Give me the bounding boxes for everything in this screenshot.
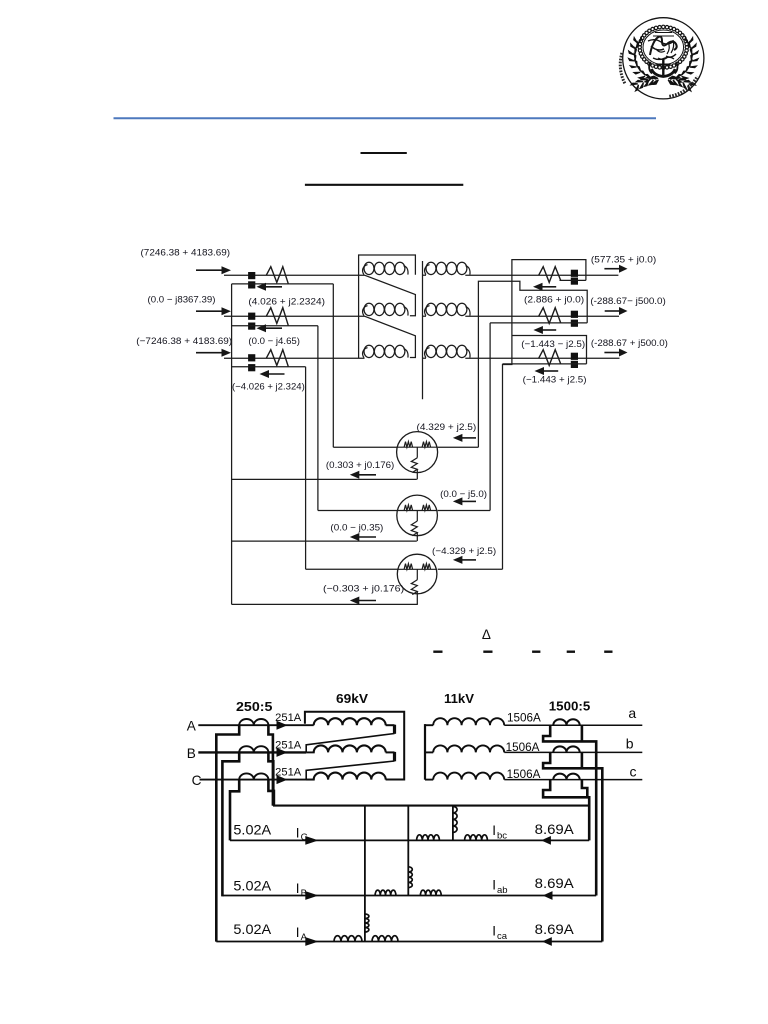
svg-text:ca: ca [497,931,508,942]
svg-text:(-288.67 + j500.0): (-288.67 + j500.0) [591,338,668,349]
69kV winding B terminal [386,751,395,753]
load 3 (motor/impedance) [397,554,437,594]
wire: phase C return stub [232,366,306,368]
svg-text:(−7246.38 + 4183.69): (−7246.38 + 4183.69) [136,336,232,347]
wire: 69kV line A [198,724,313,726]
svg-text:c: c [630,764,637,780]
69kV winding A [314,718,386,725]
CT c secondary wiring [543,780,589,841]
svg-text:8.69A: 8.69A [535,822,575,837]
CT b secondary wiring [543,752,602,941]
wire: load 2 bottom return [232,540,417,542]
svg-text:8.69A: 8.69A [535,876,575,891]
CT B secondary wiring [222,752,239,896]
CT C secondary wiring [230,780,239,841]
wire: load 1 right feed [438,446,479,448]
svg-text:(0.303 + j0.176): (0.303 + j0.176) [326,460,394,471]
arrow: output c [604,352,620,354]
CT humps a (1500:5) [553,719,579,725]
svg-text:1506A: 1506A [507,769,541,781]
svg-text:Δ: Δ [482,627,491,642]
arrow: I_ca flow [542,937,552,946]
svg-text:8.69A: 8.69A [535,922,575,937]
arrow: phase B input [196,310,223,312]
transformer primary frame [359,255,416,358]
CT primary humps B (250:5) [239,746,268,752]
arrow: into load 3 [461,559,476,561]
inductor: branch ab [408,867,412,888]
resistor phase C [266,350,288,367]
transformer secondary winding a [423,274,427,276]
dash mark 4 [567,651,575,653]
arrow: line B flow [277,748,288,757]
arrow: phase C input [196,352,223,354]
wire: stub b [490,322,587,324]
svg-text:I: I [492,878,496,893]
wire: output line b [465,315,619,317]
dash mark 5 [604,651,612,653]
arrow: load 2 out [358,536,376,538]
wire: load 2 bottom stub [416,536,418,542]
wire: 69kV line C [200,779,314,781]
resistor phase A [266,267,288,284]
arrow: phase A return [265,286,282,288]
11kV winding b [425,751,433,753]
69kV delta link A-B [306,734,394,753]
svg-text:I: I [296,881,300,896]
svg-text:(−0.303 + j0.176): (−0.303 + j0.176) [323,584,404,595]
wire: load 3 bottom stub [416,594,418,605]
svg-text:I: I [296,825,300,840]
delta link B-C [365,316,416,357]
arrow: load 3 out [358,600,376,602]
svg-text:69kV: 69kV [336,691,368,706]
69kV winding B [314,745,386,752]
wire: output line c [465,357,619,359]
svg-text:11kV: 11kV [444,691,474,706]
svg-text:(0.0 − j0.35): (0.0 − j0.35) [330,523,383,534]
69kV winding frame [305,712,404,780]
arrow: I_C flow [305,836,318,845]
arrow: load 1 out [358,474,376,476]
arrow: return c [543,370,558,372]
wire: box a loop [503,260,586,570]
wire: load 1 bottom return [232,478,417,480]
svg-text:a: a [628,705,636,721]
svg-text:C: C [192,773,202,788]
svg-text:(−4.026 + j2.324): (−4.026 + j2.324) [232,382,305,393]
arrow: return a [542,286,557,288]
svg-text:I: I [296,925,300,940]
CT marks output a [571,270,578,277]
svg-text:A: A [187,719,197,734]
arrow: phase C return [268,373,285,375]
inductor: branch ca [365,914,369,932]
svg-text:250:5: 250:5 [236,699,272,714]
CT marks phase C [248,354,255,361]
resistor output c [539,350,561,366]
wire: line b [504,751,642,753]
wire: box c loop [512,336,586,364]
resistor phase B [266,308,288,326]
69kV winding C [314,773,386,780]
wire: drop to load 2 left [317,326,319,511]
wire: I_C / I_bc line [230,839,589,841]
dash mark 1 [433,651,442,653]
inductor: ca right [372,936,398,942]
wire: left return bus [231,284,233,605]
inductor: ab right [420,890,441,895]
svg-text:B: B [301,888,307,899]
wire: I_A / I_ca line [216,941,602,943]
11kV winding a [425,724,433,726]
CT marks phase A [248,272,255,279]
wire: drop to load 1 left [332,284,334,447]
page header rule (blue) [114,117,657,119]
CT primary humps C (250:5) [239,773,268,779]
wire: load 2 right drop [489,323,491,511]
wire: branch bc drop [452,806,454,841]
wire: line a [504,724,642,726]
svg-text:(4.026 + j2.2324): (4.026 + j2.2324) [248,296,325,307]
wire: burden top bus [273,805,588,807]
svg-text:A: A [301,932,308,943]
wire: load 3 right feed [438,568,503,570]
wire: 69kV line B [198,751,306,753]
inductor: bc left [417,835,440,841]
CT humps c (1500:5) [553,774,579,780]
svg-text:5.02A: 5.02A [233,823,272,838]
inductor: bc right [465,835,488,841]
svg-text:b: b [626,736,634,752]
transformer primary winding C [363,348,368,358]
dash mark 3 [532,651,540,653]
svg-text:I: I [492,924,496,939]
arrow: I_A flow [305,937,318,946]
arrow: line A flow [277,721,288,730]
arrow: phase B return [265,327,282,329]
69kV delta link B-C [306,761,394,780]
arrow: output b [605,310,620,312]
CT marks phase B [248,313,255,320]
wire: phase B line [224,315,365,317]
resistor output b [539,308,561,324]
svg-text:(0.0 − j4.65): (0.0 − j4.65) [248,336,300,347]
title underline (long) [305,184,463,186]
CT A secondary wiring [216,725,239,941]
CT humps b (1500:5) [553,746,579,752]
svg-text:C: C [301,832,308,843]
inductor: branch bc [453,806,457,832]
svg-text:1506A: 1506A [506,742,540,754]
arrow: return b [542,329,556,331]
wire: phase C line [224,357,365,359]
svg-text:(0.0 − j5.0): (0.0 − j5.0) [440,489,487,500]
transformer secondary winding b [423,315,427,317]
wire: output line a [465,274,618,276]
svg-text:1500:5: 1500:5 [549,699,591,714]
svg-text:B: B [187,746,196,761]
load 1 (motor/impedance) [397,432,438,473]
svg-text:ab: ab [497,885,508,896]
CT marks output b [571,311,578,318]
arrow: I_bc flow [541,836,551,845]
inductor: ab left [375,890,396,895]
wire: phase B return stub [232,325,318,327]
title underline (short) [361,152,407,154]
wire: load 2 right feed [438,510,490,512]
svg-text:(7246.38 + 4183.69): (7246.38 + 4183.69) [141,248,231,259]
wire: phase A line [224,274,365,276]
transformer primary winding A [363,265,368,275]
svg-text:(577.35 + j0.0): (577.35 + j0.0) [591,254,656,265]
wire: branch ab drop [407,806,409,896]
logo: academy emblem [623,18,704,99]
svg-text:(2.886 + j0.0): (2.886 + j0.0) [524,295,584,306]
svg-text:(−1.443 − j2.5): (−1.443 − j2.5) [521,339,585,350]
wire: load 3 bottom return [232,603,418,605]
svg-text:(−4.329 + j2.5): (−4.329 + j2.5) [432,546,496,557]
svg-text:(−1.443 + j2.5): (−1.443 + j2.5) [523,375,587,386]
svg-text:5.02A: 5.02A [233,878,272,893]
transformer secondary neutral [422,261,424,399]
svg-text:(0.0 − j8367.39): (0.0 − j8367.39) [148,295,216,306]
wire: drop to load 3 left [305,367,307,570]
arrow: into load 2 [461,500,476,502]
svg-text:(4.329 + j2.5): (4.329 + j2.5) [417,422,477,433]
svg-text:I: I [492,823,496,838]
arrow: I_B flow [305,891,318,900]
resistor output a [539,267,561,283]
load 2 (motor/impedance) [397,495,438,536]
wire: stub a [560,279,586,281]
svg-text:(-288.67− j500.0): (-288.67− j500.0) [590,296,666,307]
transformer primary winding B [363,306,368,316]
CT marks output c [571,353,578,360]
delta link A-B [365,275,416,316]
wire: phase A return stub [232,283,334,285]
arrow: I_ab flow [543,891,553,900]
69kV winding A terminal [386,724,395,726]
wire: load 1 bottom stub [416,472,418,479]
transformer secondary winding c [423,357,427,359]
11kV winding c [425,779,433,781]
dash mark 2 [483,651,492,653]
wire: I_B / I_ab line [222,895,596,897]
11kV neutral bus [424,724,426,780]
svg-text:bc: bc [497,831,507,842]
wire: line c [504,779,642,781]
CT a secondary wiring [543,725,596,895]
svg-text:5.02A: 5.02A [233,922,272,937]
wire: box b loop [478,281,587,447]
arrow: phase A input [196,269,223,271]
wire: stub c [503,363,587,365]
CT primary humps A (250:5) [239,719,268,725]
arrow: line C flow [277,775,288,784]
arrow: into load 1 [461,437,476,439]
wire: branch ca drop [364,806,366,942]
arrow: output a [604,268,620,270]
inductor: ca left [334,936,362,942]
svg-text:1506A: 1506A [507,712,541,724]
